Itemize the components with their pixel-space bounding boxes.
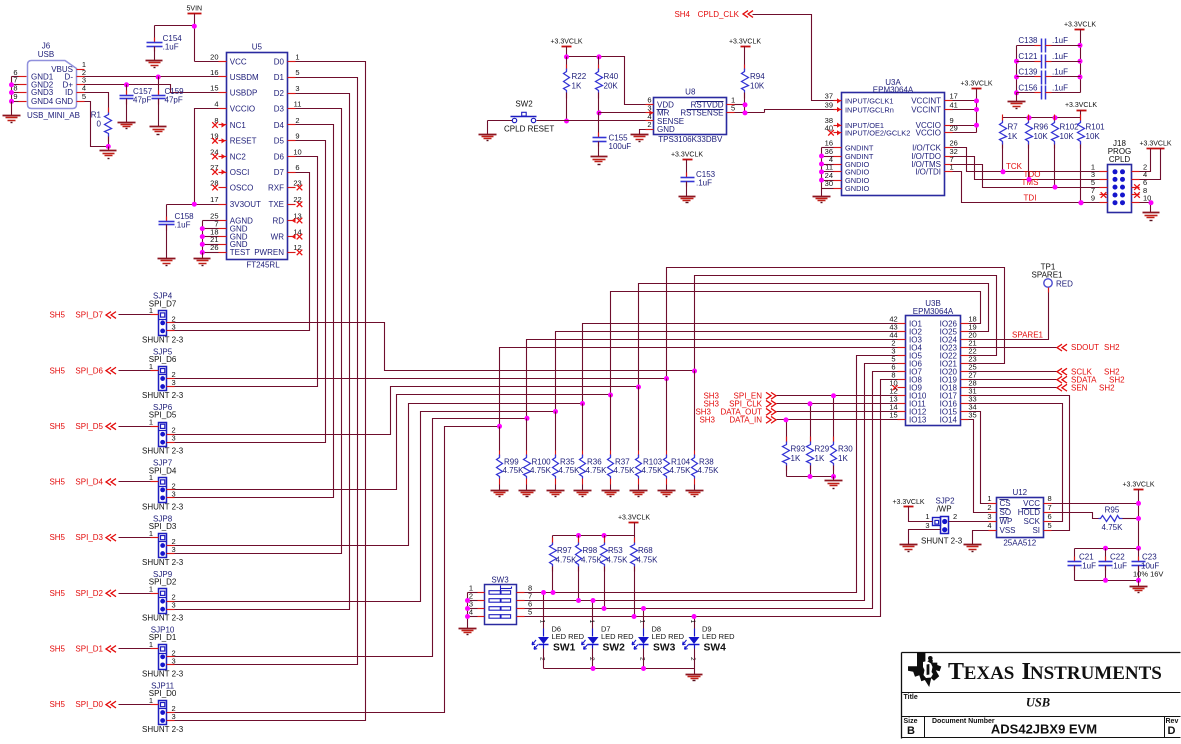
svg-text:R97: R97: [557, 546, 572, 555]
junction gnd bus: [819, 154, 824, 159]
J18 pin 3: [1100, 179, 1108, 181]
J18 pin 10: [1132, 202, 1140, 204]
wire R38 column over U3B top: [695, 276, 997, 371]
SJP10 pin1 stub: [151, 648, 159, 650]
SW3 pin 4: [478, 616, 485, 618]
svg-text:TDI: TDI: [1024, 193, 1037, 202]
svg-text:4.75K: 4.75K: [637, 556, 659, 565]
ground C158: [158, 258, 176, 260]
svg-text:1: 1: [588, 620, 595, 624]
svg-text:GND: GND: [55, 97, 73, 106]
junction pin10: [1149, 200, 1154, 205]
svg-text:1: 1: [689, 620, 696, 624]
U8 pin 2 GND: [646, 129, 654, 131]
U5 pin 28 OSCO: [219, 187, 227, 189]
svg-text:2: 2: [953, 512, 957, 521]
U3A pin 9 VCCIO: [945, 125, 953, 127]
SJP6 pin1 stub: [151, 426, 159, 428]
wire net D2 U5 to SJP9 pin3: [175, 94, 350, 610]
svg-text:1K: 1K: [815, 454, 825, 463]
wire R103 column over U3B top: [639, 284, 989, 387]
J18 pin 8: [1132, 194, 1140, 196]
svg-text:2: 2: [539, 657, 546, 661]
svg-text:+3.3VCLK: +3.3VCLK: [729, 39, 761, 46]
IC U3B EPM3064A: [906, 316, 961, 426]
U3B pin 27 IO19: [961, 379, 969, 381]
U3B pin 34 IO15: [961, 411, 969, 413]
svg-text:SPI_D4: SPI_D4: [149, 466, 177, 475]
svg-text:TPS3106K33DBV: TPS3106K33DBV: [658, 135, 723, 144]
svg-text:5: 5: [1048, 521, 1052, 530]
svg-text:SEN: SEN: [1071, 383, 1088, 392]
svg-text:SI: SI: [1032, 526, 1040, 535]
svg-text:GND: GND: [657, 125, 675, 134]
svg-text:1K: 1K: [791, 454, 801, 463]
wire cap rail top: [1075, 548, 1139, 550]
ground C157: [118, 122, 136, 124]
svg-text:10% 16V: 10% 16V: [1133, 570, 1163, 579]
capacitor C22: [1105, 549, 1107, 562]
wire LED cathode rail: [544, 668, 695, 670]
resistor R36 4.75K: [582, 404, 584, 451]
svg-text:R7: R7: [1008, 123, 1019, 132]
wire net SPI_D1 SJP10 pin2 to R100 row: [175, 419, 527, 657]
J6 pin 9 GND4: [19, 101, 27, 103]
U3A pin 29 VCCIO: [945, 132, 953, 134]
resistor R103 4.75K: [638, 387, 640, 451]
resistor R29 1K: [810, 404, 812, 442]
no-connect U5 NC1: [212, 122, 218, 128]
svg-text:.1uF: .1uF: [696, 179, 712, 188]
svg-text:VCCINT: VCCINT: [911, 105, 941, 114]
J6 pin 5 GND: [77, 101, 85, 103]
junction R95: [1136, 516, 1141, 521]
wire R104 column over U3B top: [667, 268, 1005, 379]
svg-text:C23: C23: [1142, 553, 1157, 562]
svg-text:.1uF: .1uF: [1080, 562, 1096, 571]
resistor R97 4.75K: [552, 536, 554, 543]
junction R22 bottom: [564, 119, 569, 124]
U8 pin 4 SENSE: [646, 120, 654, 122]
wire net SPI_D3 SJP8 pin2 to R36 row: [175, 404, 583, 546]
U3B pin 10 IO9: [898, 387, 906, 389]
svg-text:1: 1: [925, 512, 929, 521]
junction U5 gnd bus: [200, 226, 205, 231]
SJP7 pin1 stub: [151, 481, 159, 483]
svg-text:SW2: SW2: [603, 643, 626, 654]
svg-text:IO14: IO14: [940, 416, 958, 425]
U3B pin 2 IO4: [898, 347, 906, 349]
U3A pin 39 INPUT/GCLRn: [834, 109, 842, 111]
svg-text:LED RED: LED RED: [652, 632, 685, 641]
svg-text:D: D: [1168, 725, 1176, 737]
svg-text:1: 1: [987, 494, 991, 503]
svg-text:.1uF: .1uF: [175, 220, 191, 229]
IC U3A EPM3064A: [842, 93, 945, 196]
svg-text:4.75K: 4.75K: [503, 466, 525, 475]
U3B pin 5 IO6: [898, 363, 906, 365]
svg-text:1: 1: [149, 306, 153, 315]
svg-text:SHUNT 2-3: SHUNT 2-3: [142, 447, 184, 456]
svg-text:1: 1: [295, 52, 299, 61]
U3A pin 37 INPUT/GCLK1: [834, 100, 842, 102]
wire net TDI: [953, 172, 1100, 203]
svg-text:SPI_D6: SPI_D6: [149, 355, 177, 364]
U3B pin 3 IO5: [898, 355, 906, 357]
wire net D6 U5 to SJP5 pin3: [175, 157, 318, 387]
wire IO17 to U12 SI: [969, 396, 1070, 531]
svg-text:1: 1: [149, 529, 153, 538]
wire SJP2 pin2 to WP: [949, 521, 989, 523]
svg-text:1K: 1K: [572, 82, 582, 91]
wire 3V3OUT to C158: [167, 204, 219, 206]
node SH5 SPI_D1: [119, 648, 151, 650]
svg-text:SH2: SH2: [1099, 383, 1115, 392]
svg-text:SW3: SW3: [491, 575, 509, 584]
svg-text:USB: USB: [1026, 696, 1050, 710]
resistor R30 1K: [833, 396, 835, 442]
power +3.3VCLK J18: [1147, 148, 1165, 150]
U12 pin 4 VSS: [989, 530, 997, 532]
ground U8: [631, 134, 649, 136]
wire net SPI_D6 SJP5 pin2 to R104 row: [175, 378, 667, 380]
U5 pin 26 TEST: [219, 252, 227, 254]
svg-text:SW3: SW3: [653, 643, 676, 654]
svg-text:+3.3VCLK: +3.3VCLK: [1065, 102, 1097, 109]
svg-text:TCK: TCK: [1006, 162, 1023, 171]
junction D9 top: [692, 614, 697, 619]
J18 pin 6: [1132, 187, 1140, 189]
junction rail: [1027, 115, 1032, 120]
junction R68 bottom: [632, 614, 637, 619]
U8 pin 6 VDD: [646, 104, 654, 106]
wire net D1 U5 to SJP10 pin3: [175, 78, 358, 665]
svg-text:10K: 10K: [1060, 132, 1075, 141]
svg-text:LED RED: LED RED: [601, 632, 634, 641]
wire net USB ID: [85, 93, 109, 113]
wire cap rail bottom: [1075, 580, 1139, 582]
junction R36 tap: [580, 401, 585, 406]
svg-text:C22: C22: [1110, 553, 1125, 562]
J6 pin 8 GND3: [19, 92, 27, 94]
svg-text:USB: USB: [38, 50, 54, 59]
svg-text:R40: R40: [604, 72, 619, 81]
node SH5 SPI_D2: [119, 593, 151, 595]
svg-text:+3.3VCLK: +3.3VCLK: [892, 499, 924, 506]
svg-text:FT245RL: FT245RL: [246, 261, 280, 270]
LED D7 LED RED SW2: [592, 601, 594, 629]
svg-text:Document Number: Document Number: [932, 718, 995, 725]
ground R36: [574, 490, 592, 492]
junction R40 bottom: [597, 110, 602, 115]
svg-text:LED RED: LED RED: [552, 632, 585, 641]
wire U8 GND pin: [640, 130, 646, 135]
U3B pin 33 IO16: [961, 403, 969, 405]
wire net SPI_D4 SJP7 pin2 to R37 row: [175, 395, 611, 490]
U3B pin 19 IO25: [961, 331, 969, 333]
power +3.3VCLK U3A: [972, 88, 982, 90]
connector J18 PROG CPLD: [1108, 165, 1132, 213]
power +3.3VCLK cap bank: [1075, 29, 1085, 31]
junction rail: [808, 474, 813, 479]
svg-text:1K: 1K: [1008, 132, 1018, 141]
svg-text:ADS42JBX9 EVM: ADS42JBX9 EVM: [991, 722, 1097, 737]
wire net D4 U5 to SJP7 pin3: [175, 125, 334, 498]
svg-text:T: T: [948, 659, 964, 685]
SJP11 pin2 stub: [167, 712, 175, 714]
SJP5 pin1 stub: [151, 370, 159, 372]
svg-text:R101: R101: [1086, 123, 1106, 132]
wire U5 ground bus: [203, 220, 219, 222]
resistor R35 4.75K: [555, 412, 557, 451]
svg-text:SH5: SH5: [49, 311, 65, 320]
svg-text:SW2: SW2: [515, 100, 533, 109]
J18 pin 9: [1100, 202, 1108, 204]
svg-text:+3.3VCLK: +3.3VCLK: [960, 81, 992, 88]
svg-text:7: 7: [1048, 503, 1052, 512]
svg-text:+3.3VCLK: +3.3VCLK: [1064, 22, 1096, 29]
svg-text:C156: C156: [1018, 84, 1038, 93]
junction C159 tap on D-: [156, 75, 161, 80]
svg-text:D0: D0: [274, 57, 285, 66]
capacitor C21: [1074, 549, 1076, 562]
svg-text:OSCO: OSCO: [230, 183, 254, 192]
svg-text:SH4: SH4: [674, 10, 690, 19]
no-connect U5 PWREN: [297, 250, 303, 256]
svg-text:PWREN: PWREN: [254, 248, 284, 257]
svg-text:R22: R22: [572, 72, 587, 81]
capacitor C153 .1uF: [686, 160, 688, 178]
power +3.3VCLK U8: [562, 46, 572, 48]
svg-text:CPLD: CPLD: [1109, 155, 1131, 164]
svg-text:U5: U5: [252, 42, 263, 51]
svg-text:D3: D3: [274, 105, 285, 114]
SJP9 pin3 stub: [167, 609, 175, 611]
jumper SJP7 SPI_D4: [159, 478, 167, 503]
svg-text:SH5: SH5: [49, 645, 65, 654]
svg-text:SHUNT 2-3: SHUNT 2-3: [921, 537, 963, 546]
svg-text:3: 3: [925, 521, 929, 530]
svg-text:TXE: TXE: [268, 200, 284, 209]
svg-text:NC1: NC1: [230, 121, 247, 130]
capacitor C154 .1uF: [154, 26, 156, 43]
SW3 pin 7: [517, 600, 525, 602]
svg-text:D1: D1: [274, 73, 285, 82]
svg-text:CPLD_CLK: CPLD_CLK: [698, 10, 740, 19]
svg-text:DATA_IN: DATA_IN: [729, 415, 762, 424]
svg-text:SH5: SH5: [49, 422, 65, 431]
U5 pin 14 WR: [288, 236, 296, 238]
input arrow: [837, 107, 841, 112]
U5 pin 18 GND: [219, 236, 227, 238]
wire R37 column over U3B top: [611, 292, 981, 395]
switch SW3 DIP-4: [485, 585, 517, 625]
svg-text:39: 39: [825, 100, 833, 109]
U3A pin 7 I/O/TMS: [945, 164, 953, 166]
node SDATA SH2: [969, 379, 1057, 381]
LED D8 LED RED SW3: [643, 609, 645, 629]
node SCLK SH2: [969, 371, 1057, 373]
junction R30 tap: [831, 393, 836, 398]
svg-text:INPUT/OE2/GCLK2: INPUT/OE2/GCLK2: [845, 129, 910, 138]
svg-text:4.75K: 4.75K: [556, 556, 578, 565]
wire IO5 to SW3: [525, 356, 898, 593]
svg-text:OSCI: OSCI: [230, 168, 250, 177]
svg-text:Title: Title: [904, 694, 918, 701]
wire cap bank left bus: [1016, 46, 1018, 93]
wire SJP2 pin1: [909, 507, 933, 522]
power +3.3VCLK R94: [741, 46, 751, 48]
svg-text:U8: U8: [685, 87, 696, 96]
svg-text:4: 4: [214, 100, 218, 109]
svg-text:CS: CS: [1000, 499, 1011, 508]
svg-text:4.75K: 4.75K: [581, 556, 603, 565]
svg-text:EPM3064A: EPM3064A: [873, 85, 914, 94]
LED D6 LED RED SW1: [543, 593, 545, 629]
ground R104: [658, 490, 676, 492]
U3A pin 16 GNDINT: [834, 147, 842, 149]
U3B pin 18 IO26: [961, 323, 969, 325]
svg-text:20K: 20K: [604, 82, 619, 91]
ground C159: [150, 126, 167, 128]
wire IO15 to U12 CS: [969, 412, 989, 504]
junction VCC bus: [974, 98, 979, 103]
ground U5: [194, 258, 211, 260]
wire net TMS: [953, 165, 1100, 188]
svg-text:C121: C121: [1018, 52, 1038, 61]
wire net TCK: [953, 148, 1100, 172]
junction R99 tap: [497, 424, 502, 429]
connector J6 USB_MINI_AB: [28, 61, 77, 109]
wire left bus to ground: [1016, 93, 1018, 102]
ground LEDs: [686, 674, 703, 676]
svg-text:Rev: Rev: [1166, 718, 1179, 725]
svg-text:+3.3VCLK: +3.3VCLK: [1139, 140, 1171, 147]
U3A pin 26 I/O/TCK: [945, 147, 953, 149]
svg-text:SW4: SW4: [704, 643, 727, 654]
jumper SJP10 SPI_D1: [159, 645, 167, 670]
node SH5 SPI_D6: [119, 370, 151, 372]
wire SJP2 pin3 to ground: [909, 530, 941, 545]
svg-text:+3.3VCLK: +3.3VCLK: [671, 152, 703, 159]
junction R37 tap: [608, 393, 613, 398]
svg-text:47pF: 47pF: [133, 96, 151, 105]
svg-text:.1uF: .1uF: [163, 43, 179, 52]
SJP6 pin3 stub: [167, 442, 175, 444]
svg-text:SH5: SH5: [49, 366, 65, 375]
svg-text:RESET: RESET: [230, 137, 257, 146]
wire IO6 to SW3: [525, 364, 898, 601]
svg-text:4.75K: 4.75K: [670, 466, 692, 475]
capacitor C121 .1uF: [1017, 61, 1035, 63]
SJP9 pin1 stub: [151, 593, 159, 595]
junction bottom rail: [1103, 578, 1108, 583]
svg-text:SO: SO: [1000, 508, 1012, 517]
no-connect J18 pin 7: [1101, 192, 1107, 198]
jumper SJP9 SPI_D2: [159, 589, 167, 614]
U12 pin 1 CS: [989, 503, 997, 505]
junction R35 tap: [553, 409, 558, 414]
ground C155: [591, 156, 608, 158]
junction left bus: [1014, 59, 1019, 64]
svg-text:R93: R93: [791, 445, 806, 454]
resistor R93 1K: [786, 420, 788, 442]
junction R7 bottom: [1001, 169, 1006, 174]
wire J18 pin4 to power: [1140, 149, 1161, 180]
svg-text:.1uF: .1uF: [1111, 562, 1127, 571]
svg-text:D2: D2: [274, 89, 285, 98]
U3B pin 21 IO23: [961, 347, 969, 349]
junction TDI R101: [1079, 200, 1084, 205]
wire J6 ground bus: [11, 77, 13, 102]
U5 pin 23 RXF: [288, 187, 296, 189]
svg-text:1: 1: [639, 620, 646, 624]
SJP11 pin3 stub: [167, 720, 175, 722]
junction R93 tap: [784, 417, 789, 422]
wire IO7 to SW3: [525, 372, 898, 609]
wire J18 pin2 to power: [1140, 149, 1151, 172]
J18 pin 1: [1100, 171, 1108, 173]
svg-text:VCCIO: VCCIO: [230, 105, 255, 114]
resistor R99 4.75K: [499, 427, 501, 451]
SW3 pin 5: [517, 616, 525, 618]
U5 pin 19 RESET: [219, 140, 227, 142]
U12 pin 6 SCK: [1044, 521, 1052, 523]
SJP5 pin3 stub: [167, 386, 175, 388]
wire R100 column to U3B IO3: [527, 340, 898, 419]
node SH3 SPI_CLK: [777, 403, 898, 405]
U5 pin 11 D3: [288, 108, 296, 110]
svg-text:+3.3VCLK: +3.3VCLK: [550, 39, 582, 46]
svg-text:IO13: IO13: [909, 416, 927, 425]
svg-text:R95: R95: [1105, 506, 1120, 515]
svg-text:3V3OUT: 3V3OUT: [230, 200, 261, 209]
junction rail taps: [576, 533, 581, 538]
U3A pin 4 GNDIO: [834, 164, 842, 166]
jumper SJP2 /WP: [933, 518, 941, 526]
svg-text:SH5: SH5: [49, 589, 65, 598]
resistor R94 10K: [744, 47, 746, 69]
svg-text:SPI_D7: SPI_D7: [149, 299, 177, 308]
power +3.3VCLK LED pullups: [629, 522, 639, 524]
capacitor C157 47pF: [126, 85, 128, 96]
J18 pin 7: [1100, 194, 1108, 196]
wire net D0 U5 to SJP11 pin3: [175, 62, 366, 721]
ground C23: [1130, 586, 1148, 588]
svg-text:VSS: VSS: [1000, 526, 1016, 535]
svg-text:3: 3: [172, 545, 176, 554]
junction SW3 bus: [465, 598, 470, 603]
svg-text:SDOUT: SDOUT: [1071, 343, 1099, 352]
U3B pin 23 IO21: [961, 363, 969, 365]
wire to U3A GCLRn: [765, 110, 834, 113]
SJP8 pin3 stub: [167, 553, 175, 555]
U3B pin 12 IO10: [898, 395, 906, 397]
U5 pin 13 RD: [288, 220, 296, 222]
junction R101 bottom: [1079, 200, 1084, 205]
U5 pin 8 NC1: [219, 124, 227, 126]
svg-text:SH5: SH5: [49, 478, 65, 487]
junction rail: [564, 54, 569, 59]
svg-text:GND4: GND4: [31, 97, 54, 106]
node SH5 SPI_D4: [119, 481, 151, 483]
svg-text:SHUNT 2-3: SHUNT 2-3: [142, 725, 184, 734]
svg-text:D6: D6: [274, 152, 285, 161]
U5 pin 4 VCCIO: [219, 108, 227, 110]
svg-text:I/O/TDI: I/O/TDI: [915, 168, 941, 177]
svg-text:10K: 10K: [1034, 132, 1049, 141]
U5 pin 24 NC2: [219, 156, 227, 158]
